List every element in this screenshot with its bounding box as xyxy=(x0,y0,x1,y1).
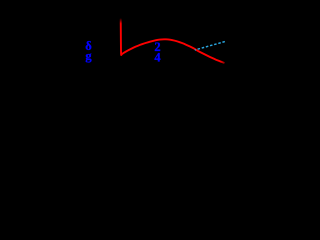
svg-text:g: g xyxy=(85,49,92,63)
curve: red potential curve (steep drop, sharp minimum, broad hump, falling tail) xyxy=(121,19,224,63)
dashed light-blue asymptote line xyxy=(195,41,226,50)
fade overlay at top tip of red curve xyxy=(115,18,126,24)
fade overlay at right end of red curve xyxy=(221,56,230,68)
svg-text:4: 4 xyxy=(154,50,161,64)
